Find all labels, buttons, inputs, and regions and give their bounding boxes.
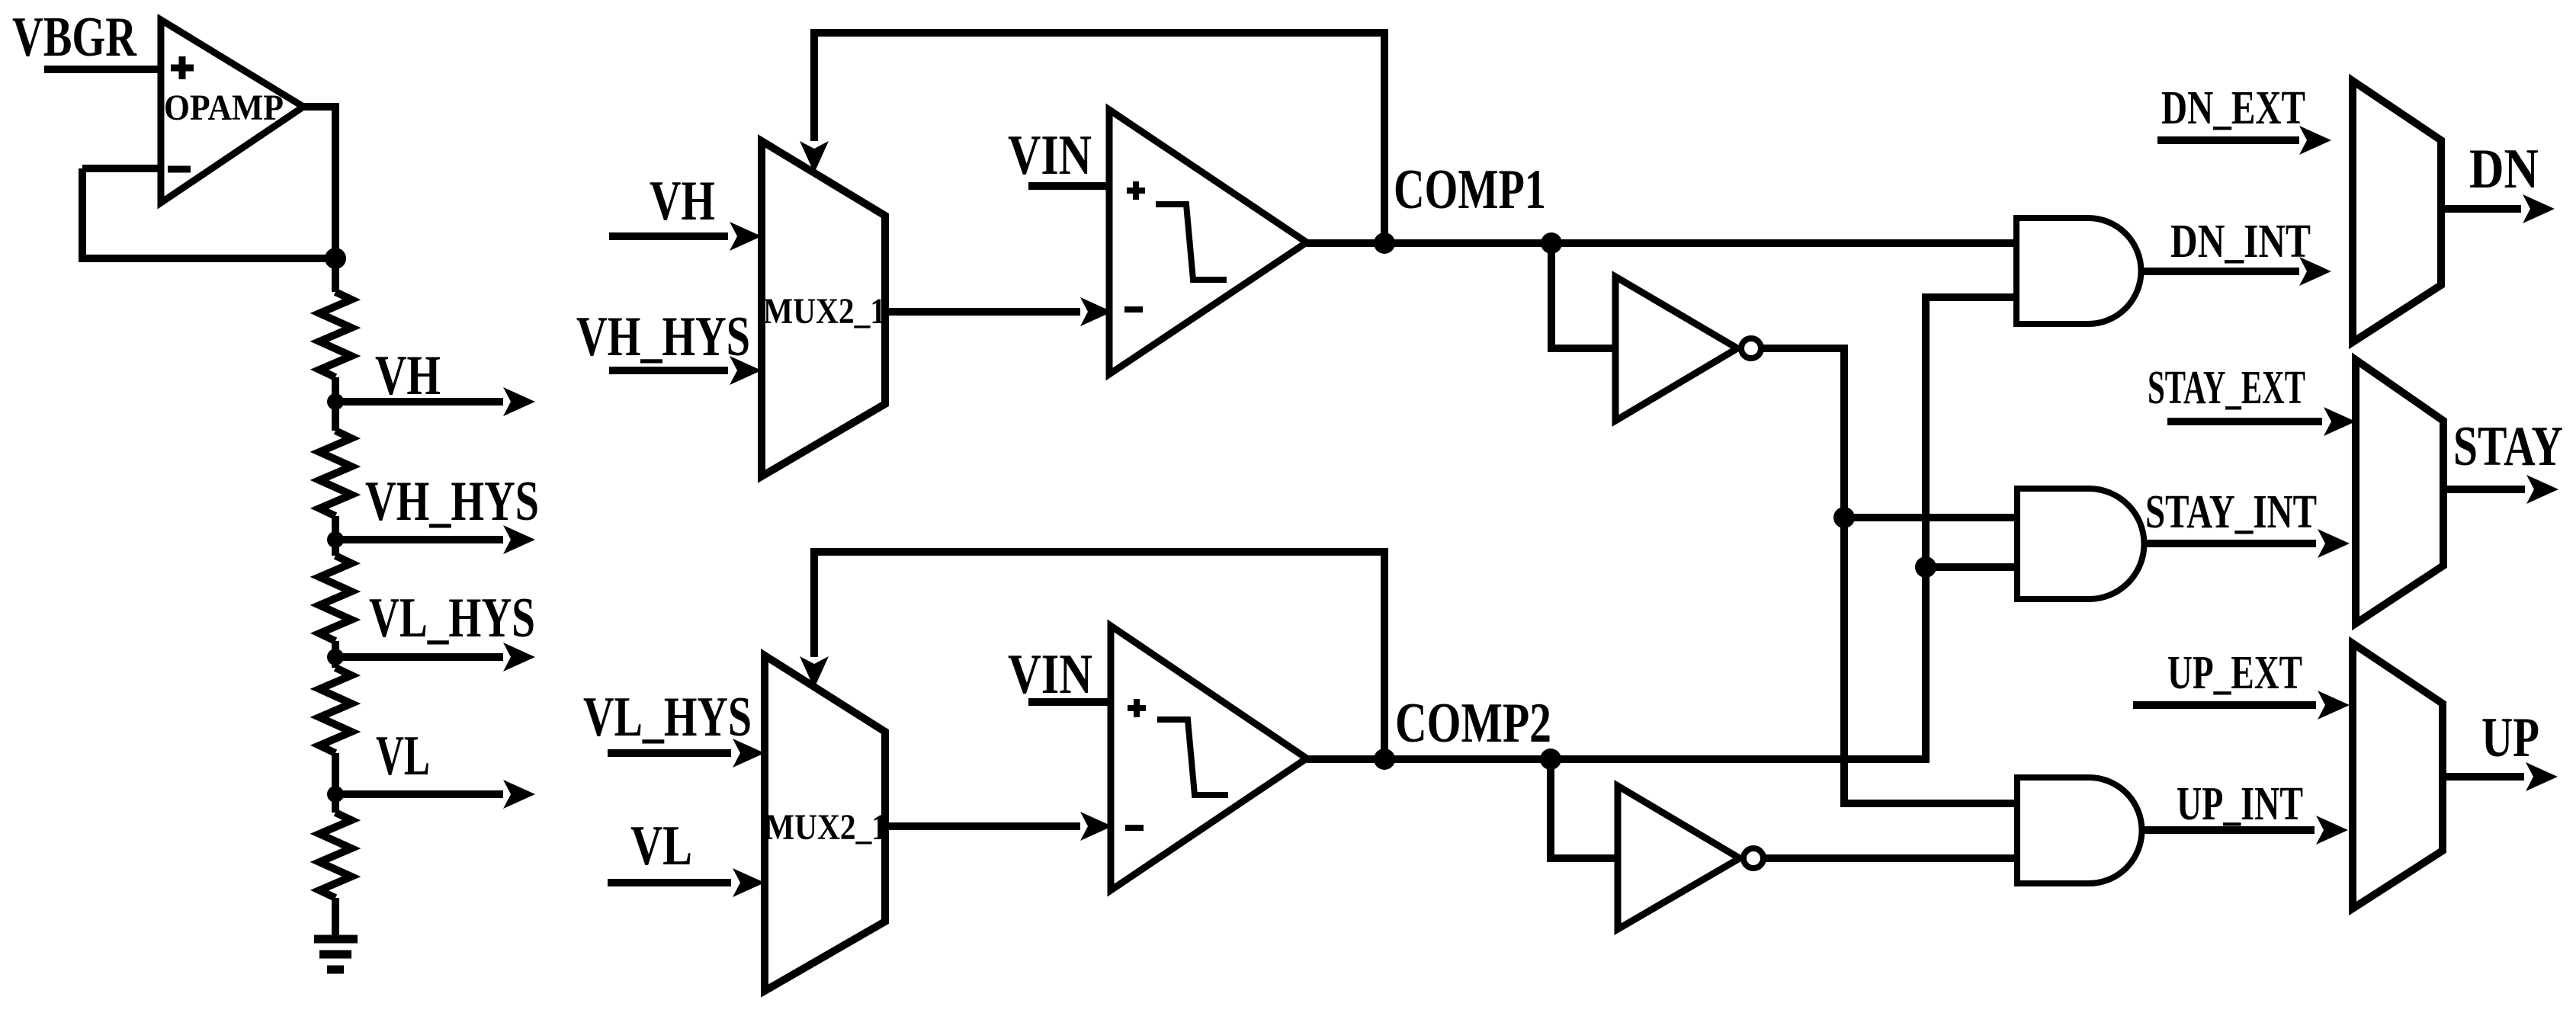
wire VIN to comparator 1 bbox=[1028, 182, 1109, 190]
svg-text:STAY: STAY bbox=[2453, 415, 2563, 478]
wire VH_HYS tap arrow bbox=[335, 525, 535, 554]
svg-text:COMP2: COMP2 bbox=[1395, 692, 1551, 755]
svg-text:VL_HYS: VL_HYS bbox=[369, 587, 535, 649]
svg-text:STAY_INT: STAY_INT bbox=[2145, 486, 2317, 538]
and-gate AND2 (STAY_INT) bbox=[2017, 489, 2145, 599]
wire COMP2 tap to STAY gate bbox=[1926, 563, 2017, 571]
net label UP_EXT bbox=[2167, 647, 2302, 699]
net label VBGR bbox=[12, 6, 137, 69]
svg-text:MUX2_1: MUX2_1 bbox=[763, 291, 886, 332]
wire R3-R4 bbox=[332, 641, 339, 668]
node feedback junction bbox=[325, 248, 346, 269]
wire inverter 1 tap to STAY gate bbox=[1844, 514, 2017, 521]
svg-text:UP: UP bbox=[2481, 707, 2539, 769]
wire R1-R2 bbox=[332, 377, 339, 431]
and-gate AND1 (DN_INT) bbox=[2016, 218, 2141, 324]
net label DN bbox=[2469, 138, 2539, 200]
wire COMP1 to inverter 1 bbox=[1551, 243, 1615, 348]
comparator COMP1 bbox=[1109, 110, 1307, 374]
svg-text:VH: VH bbox=[375, 345, 441, 407]
wire COMP1 feedback loop bbox=[800, 33, 1384, 243]
ground bbox=[314, 939, 358, 970]
svg-text:VH: VH bbox=[650, 170, 715, 232]
resistor R2 bbox=[319, 431, 351, 516]
net label VL (ladder) bbox=[376, 725, 430, 787]
resistor R1 bbox=[319, 292, 351, 377]
wire UP output arrow bbox=[2443, 762, 2558, 791]
net label VL_HYS (mux lower input) bbox=[583, 686, 752, 749]
wire UP_INT bbox=[2141, 816, 2348, 845]
net label STAY bbox=[2453, 415, 2563, 478]
node VH tap bbox=[327, 393, 344, 410]
inverter U4 bbox=[1618, 786, 1763, 929]
net label UP_INT bbox=[2177, 778, 2303, 830]
net label DN_EXT bbox=[2161, 82, 2305, 134]
wire DN output arrow bbox=[2441, 194, 2555, 223]
node COMP1 inverter tap bbox=[1541, 232, 1562, 254]
node inverter 1 output tap bbox=[1833, 507, 1855, 528]
wire STAY_INT bbox=[2144, 529, 2350, 558]
svg-text:VIN: VIN bbox=[1008, 124, 1092, 187]
node COMP1 feedback tap bbox=[1374, 232, 1395, 254]
mux MUX2_1 lower bbox=[765, 656, 887, 991]
svg-text:UP_INT: UP_INT bbox=[2177, 778, 2303, 830]
wire VH_HYS input to mux upper bbox=[609, 356, 762, 385]
svg-text:STAY_EXT: STAY_EXT bbox=[2148, 362, 2305, 414]
net label VH_HYS (mux upper input) bbox=[576, 306, 750, 368]
net label VH (ladder) bbox=[375, 345, 441, 407]
mux STAY output bbox=[2356, 360, 2443, 624]
svg-text:UP_EXT: UP_EXT bbox=[2167, 647, 2302, 699]
wire COMP2 to inverter 2 bbox=[1551, 759, 1618, 858]
resistor R4 bbox=[319, 668, 351, 753]
wire VH tap arrow bbox=[335, 387, 535, 416]
wire DN_EXT bbox=[2157, 126, 2331, 155]
svg-text:VL: VL bbox=[630, 815, 692, 877]
svg-text:DN_EXT: DN_EXT bbox=[2161, 82, 2305, 134]
svg-text:VIN: VIN bbox=[1008, 643, 1092, 706]
wire VL_HYS input to mux lower bbox=[608, 739, 765, 768]
svg-text:MUX2_1: MUX2_1 bbox=[765, 807, 887, 848]
svg-text:VL_HYS: VL_HYS bbox=[583, 686, 752, 749]
net label COMP2 bbox=[1395, 692, 1551, 755]
resistor R3 bbox=[319, 556, 351, 641]
wire op-amp output bbox=[303, 107, 335, 292]
net label UP bbox=[2481, 707, 2539, 769]
net label VIN (upper) bbox=[1008, 124, 1092, 187]
wire inverter 1 output bbox=[1761, 348, 2017, 803]
wire STAY output arrow bbox=[2443, 475, 2558, 504]
wire STAY_EXT bbox=[2167, 407, 2356, 436]
node VL tap bbox=[327, 786, 344, 803]
wire COMP2 feedback loop bbox=[800, 552, 1384, 759]
node COMP2 STAY tap bbox=[1915, 556, 1936, 578]
wire mux lower output to comparator bbox=[885, 812, 1112, 841]
wire DN_INT bbox=[2141, 257, 2331, 286]
wire R4-R5 bbox=[332, 753, 339, 813]
op-amp OPAMP bbox=[161, 20, 303, 203]
svg-text:VL: VL bbox=[376, 725, 430, 787]
svg-text:OPAMP: OPAMP bbox=[164, 88, 284, 128]
svg-text:VH_HYS: VH_HYS bbox=[576, 306, 750, 368]
svg-text:COMP1: COMP1 bbox=[1394, 159, 1546, 221]
wire op-amp inverting input bbox=[82, 165, 161, 172]
wire mux upper output to comparator bbox=[885, 297, 1112, 326]
node VH_HYS tap bbox=[327, 531, 344, 548]
node VL_HYS tap bbox=[327, 649, 344, 665]
wire op-amp feedback bbox=[82, 168, 335, 258]
wire R2-R3 bbox=[332, 516, 339, 556]
mux MUX2_1 upper bbox=[762, 141, 886, 476]
net label STAY_INT bbox=[2145, 486, 2317, 538]
svg-text:VBGR: VBGR bbox=[12, 6, 137, 69]
wire VL input to mux lower bbox=[608, 868, 765, 897]
net label DN_INT bbox=[2170, 216, 2311, 268]
wire R5-ground bbox=[332, 898, 339, 939]
net label VL_HYS (ladder) bbox=[369, 587, 535, 649]
inverter U2 bbox=[1615, 277, 1761, 421]
wire VIN to comparator 2 bbox=[1028, 698, 1111, 706]
mux DN output bbox=[2353, 81, 2441, 342]
wire VBGR input bbox=[44, 66, 161, 73]
wire UP_EXT bbox=[2133, 691, 2350, 720]
mux UP output bbox=[2353, 643, 2443, 909]
and-gate AND3 (UP_INT) bbox=[2017, 777, 2142, 883]
net label VIN (lower) bbox=[1008, 643, 1092, 706]
wire VH input to mux upper bbox=[609, 222, 762, 251]
svg-text:DN_INT: DN_INT bbox=[2170, 216, 2311, 268]
wire COMP1 output bbox=[1307, 239, 2016, 247]
node COMP2 feedback tap bbox=[1374, 749, 1395, 770]
wire VL tap arrow bbox=[335, 780, 535, 809]
wire COMP2 output bbox=[1307, 297, 2017, 759]
svg-text:DN: DN bbox=[2469, 138, 2539, 200]
wire VL_HYS tap arrow bbox=[335, 643, 535, 672]
svg-text:VH_HYS: VH_HYS bbox=[365, 470, 539, 533]
net label STAY_EXT bbox=[2148, 362, 2305, 414]
net label VH_HYS (ladder) bbox=[365, 470, 539, 533]
comparator COMP2 bbox=[1111, 626, 1307, 890]
net label COMP1 bbox=[1394, 159, 1546, 221]
node COMP2 inverter tap bbox=[1540, 749, 1561, 770]
resistor R5 bbox=[319, 813, 351, 898]
net label VH (mux upper input) bbox=[650, 170, 715, 232]
wire inverter 2 output bbox=[1763, 854, 2017, 862]
net label VL (mux lower input) bbox=[630, 815, 692, 877]
